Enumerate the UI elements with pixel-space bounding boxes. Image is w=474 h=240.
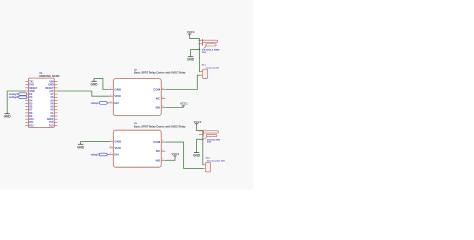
svg-text:GND: GND [114,139,122,143]
U2 left pin stubs [109,90,113,103]
device DL1 body [200,69,207,78]
wire [190,36,201,71]
supply VCC1 [194,120,202,124]
wire [165,158,175,160]
wire [191,49,200,53]
svg-text:GND: GND [187,58,195,62]
arduino U1 right pin stubs [54,82,57,126]
wire [197,139,203,149]
U2 pin numbers [110,87,163,108]
U2 right pin stubs [161,90,165,108]
wire [165,142,203,168]
svg-text:VDD: VDD [114,146,121,150]
svg-text:4: 4 [162,87,163,90]
U3 right pin stubs [161,142,165,160]
wire [81,140,110,142]
svg-text:D13: D13 [49,124,54,127]
arduino U1 right pin names [45,81,54,128]
svg-text:6: 6 [162,106,163,108]
arduino U1 left pin names [29,81,38,128]
svg-text:GND: GND [4,115,12,119]
netlabel relay2 at arduino [9,96,27,99]
svg-text:2: 2 [110,146,111,148]
wire [197,126,204,165]
relay module U3 body [113,130,161,167]
power jack DS1 [198,39,218,48]
svg-text:GND: GND [114,87,122,91]
svg-text:relay2: relay2 [91,153,100,156]
U3 right pin names [153,140,161,162]
svg-text:5: 5 [162,150,163,152]
svg-text:COM: COM [153,140,161,144]
arduino U1 body [28,78,54,127]
wire [57,91,109,96]
svg-text:GND: GND [91,82,99,86]
netlabel relay2 at U3 EN [91,153,110,156]
svg-text:NO: NO [156,158,161,162]
device DL2 body [203,163,210,172]
svg-text:VDD: VDD [114,94,121,98]
ground GND [91,78,99,86]
ground GND1 [187,54,195,62]
svg-text:2: 2 [110,95,111,97]
ground GND [77,141,85,149]
svg-text:5: 5 [162,97,163,99]
ground GND-arduino [4,111,12,119]
U3 pin numbers [110,140,163,161]
svg-text:GND: GND [77,145,85,149]
wire [7,91,25,111]
svg-text:DoorLock1 12V: DoorLock1 12V [207,67,220,69]
netlabel relay1 at U2 EN [91,102,110,105]
svg-text:VCC1: VCC1 [172,152,180,156]
svg-text:6: 6 [162,159,163,161]
supply VCC1 [172,152,180,156]
svg-text:D12: D12 [29,124,34,127]
svg-text:1: 1 [110,140,111,142]
U2 right pin names [153,87,161,109]
svg-text:GND: GND [193,154,201,158]
ground GND2 [193,150,201,158]
supply VCC1 [187,30,195,34]
wire [165,107,183,109]
relay module U2 body [113,79,161,116]
svg-text:EN: EN [114,153,118,157]
U3 left pin names [114,139,122,156]
wire [165,75,200,89]
wire [94,78,109,89]
svg-text:EN: EN [114,101,118,105]
supply VCC1 [180,102,188,106]
svg-text:NO: NO [156,105,161,109]
netlabel relay1 at arduino [9,93,27,96]
svg-text:3: 3 [110,101,111,103]
svg-text:relay2: relay2 [9,96,19,99]
svg-text:ARDUINO_NANO: ARDUINO_NANO [39,74,60,78]
U2 left pin names [114,87,122,104]
junction [199,49,201,51]
svg-text:Basic SPDT Relay Carrier with: Basic SPDT Relay Carrier with 5VDC Relay [134,126,186,129]
U3 left pin stubs [109,141,113,154]
svg-text:1: 1 [110,88,111,90]
svg-text:relay1: relay1 [91,102,100,105]
svg-text:DoorLock2 12V: DoorLock2 12V [207,161,226,163]
arduino U1 left pin stubs [25,82,28,126]
svg-text:3: 3 [110,153,111,155]
junction 2 [202,138,204,140]
svg-text:VCC1: VCC1 [180,102,188,106]
power jack DS2 [199,130,219,139]
svg-text:Basic SPDT Relay Carrier with: Basic SPDT Relay Carrier with 5VDC Relay [134,72,186,75]
svg-text:4: 4 [162,140,163,143]
svg-text:COM: COM [153,87,161,91]
